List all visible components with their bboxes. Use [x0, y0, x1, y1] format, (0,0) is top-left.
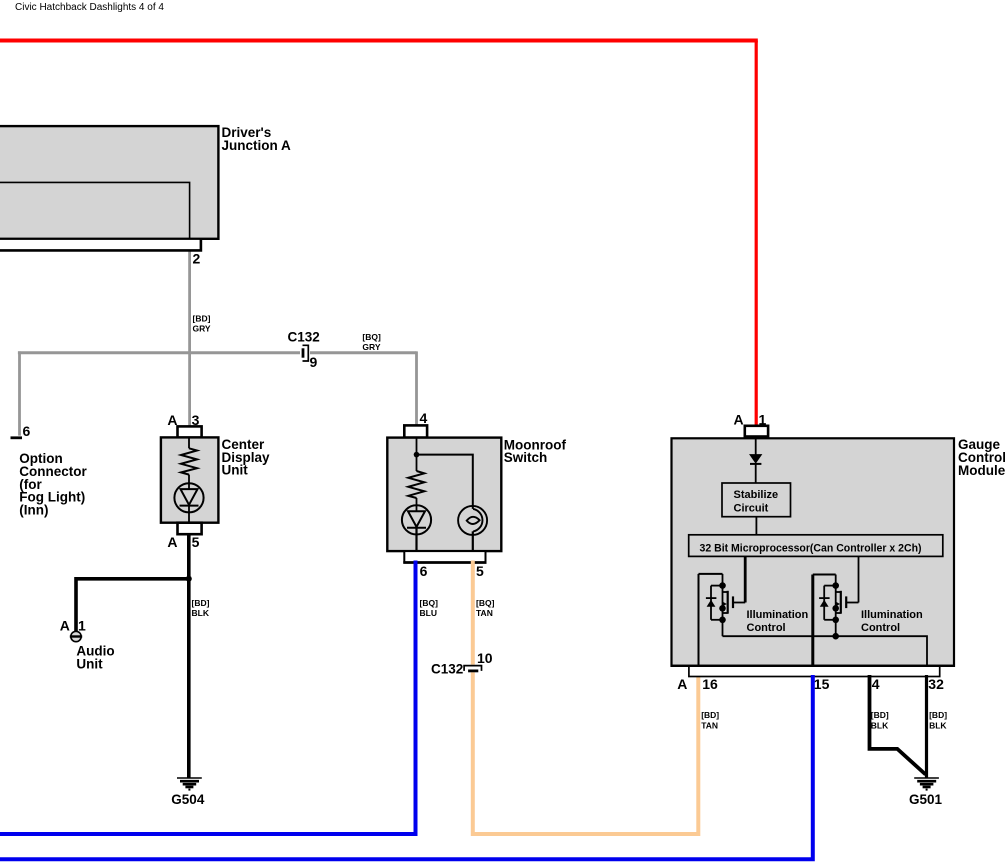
- svg-text:16: 16: [702, 676, 718, 692]
- wire [BQ] GRY down to moonroof switch pin 4: [415, 351, 418, 425]
- svg-text:GRY: GRY: [362, 342, 380, 352]
- wire [BD] BLK from pin A5 to G504: [187, 534, 191, 778]
- svg-text:32 Bit Microprocessor(Can Cont: 32 Bit Microprocessor(Can Controller x 2…: [700, 543, 922, 555]
- bottom pin strip: [404, 551, 485, 562]
- svg-text:BLK: BLK: [192, 608, 210, 618]
- lamp left: [402, 505, 431, 534]
- pin box A1: [745, 426, 768, 437]
- svg-text:BLK: BLK: [929, 721, 947, 731]
- source rail to pin 32: [723, 636, 928, 666]
- svg-text:BLU: BLU: [420, 608, 437, 618]
- svg-text:[BQ]: [BQ]: [476, 598, 495, 608]
- svg-text:A: A: [677, 676, 687, 692]
- svg-text:32: 32: [928, 676, 944, 692]
- svg-text:A: A: [734, 412, 744, 428]
- svg-text:Circuit: Circuit: [734, 503, 769, 515]
- svg-text:4: 4: [420, 410, 428, 426]
- pin box 4: [404, 425, 427, 437]
- resistor: [408, 471, 424, 498]
- svg-text:Control: Control: [747, 622, 786, 634]
- svg-text:[BD]: [BD]: [193, 314, 211, 324]
- Moonroof Switch: [387, 410, 566, 579]
- Driver's Junction A box: [0, 125, 291, 266]
- pin box A3: [178, 426, 202, 437]
- svg-text:Switch: Switch: [504, 450, 548, 465]
- pin box A5: [178, 523, 202, 535]
- svg-text:5: 5: [476, 563, 484, 579]
- svg-text:3: 3: [192, 412, 200, 428]
- microprocessor box: [689, 535, 943, 557]
- svg-text:[BD]: [BD]: [929, 710, 947, 720]
- svg-text:9: 9: [310, 354, 318, 370]
- right MOSFET Q2: [813, 556, 859, 666]
- wire [BQ] BLU gauge pin 15 to left edge: [0, 675, 813, 859]
- stabilize circuit box: [722, 483, 791, 517]
- svg-text:6: 6: [420, 563, 428, 579]
- svg-text:(Inn): (Inn): [19, 503, 48, 518]
- svg-text:Stabilize: Stabilize: [734, 489, 779, 501]
- Gauge Control Module: [671, 412, 1005, 693]
- wire [BQ]/[BD] TAN moonroof pin 5 to gauge pin A16: [471, 561, 475, 665]
- svg-text:2: 2: [193, 251, 201, 267]
- svg-text:TAN: TAN: [701, 721, 718, 731]
- svg-text:[BD]: [BD]: [192, 598, 210, 608]
- component box: [161, 437, 219, 522]
- wire black branch to audio unit: [76, 579, 189, 632]
- wire [BD] GRY horizontal branch: [18, 351, 417, 354]
- component box: [387, 438, 501, 551]
- wire gray branch to option connector pin 6: [18, 351, 21, 435]
- junction dot: [186, 576, 192, 582]
- svg-text:1: 1: [78, 618, 86, 634]
- wire [BD] GRY vertical from Driver's Junction A pin 2: [188, 250, 191, 427]
- svg-text:10: 10: [477, 650, 493, 666]
- resistor: [181, 448, 197, 474]
- svg-text:Control: Control: [861, 622, 900, 634]
- lamp right (bulb): [458, 506, 487, 535]
- internal wires: [416, 438, 418, 471]
- diode: [750, 455, 761, 463]
- wire stabilize to microprocessor: [755, 517, 757, 535]
- svg-text:[BQ]: [BQ]: [362, 332, 381, 342]
- svg-text:A: A: [167, 534, 177, 550]
- svg-text:15: 15: [814, 676, 830, 692]
- svg-text:Junction A: Junction A: [222, 138, 291, 153]
- svg-text:TAN: TAN: [476, 608, 493, 618]
- svg-text:C132: C132: [431, 662, 463, 677]
- svg-text:5: 5: [192, 534, 200, 550]
- svg-text:GRY: GRY: [193, 324, 211, 334]
- svg-text:Unit: Unit: [222, 463, 249, 478]
- ground G504: [171, 778, 205, 807]
- body diode: [711, 585, 723, 587]
- svg-text:BLK: BLK: [871, 721, 889, 731]
- bottom pin strip: [689, 666, 940, 677]
- svg-text:Illumination: Illumination: [747, 609, 809, 621]
- svg-text:4: 4: [872, 676, 880, 692]
- body diode: [824, 585, 836, 587]
- ground G501: [909, 778, 943, 807]
- left MOSFET Q1: [699, 556, 746, 666]
- wire [BQ] BLU moonroof pin 6 to left edge: [0, 561, 416, 835]
- svg-text:C132: C132: [288, 330, 320, 345]
- connector C132 pin 10: [431, 650, 493, 677]
- svg-text:Illumination: Illumination: [861, 609, 923, 621]
- svg-text:Unit: Unit: [76, 657, 103, 672]
- Option Connector terminal 6: [11, 423, 88, 518]
- svg-text:G501: G501: [909, 792, 943, 807]
- svg-text:Civic Hatchback Dashlights 4 o: Civic Hatchback Dashlights 4 of 4: [15, 2, 164, 13]
- svg-text:Module: Module: [958, 463, 1005, 478]
- internal wire: [188, 437, 190, 448]
- component box: [672, 438, 955, 666]
- wire to diode: [755, 438, 757, 454]
- svg-text:1: 1: [759, 412, 767, 428]
- svg-text:G504: G504: [171, 792, 205, 807]
- wire red power feed: [0, 39, 758, 43]
- wire [BD] BLK gauge pin 4 to G501: [870, 675, 926, 775]
- Audio Unit terminal A1: [60, 618, 115, 672]
- svg-text:[BD]: [BD]: [871, 710, 889, 720]
- svg-text:[BQ]: [BQ]: [420, 598, 439, 608]
- svg-text:A: A: [167, 412, 177, 428]
- connector C132 pin 9: [288, 330, 320, 371]
- Center Display Unit: [161, 412, 270, 550]
- svg-text:[BD]: [BD]: [701, 710, 719, 720]
- svg-text:6: 6: [23, 423, 31, 439]
- wire [BD] BLK gauge pin 32 to G501: [925, 675, 928, 778]
- lamp: [174, 483, 203, 512]
- svg-text:A: A: [60, 618, 70, 634]
